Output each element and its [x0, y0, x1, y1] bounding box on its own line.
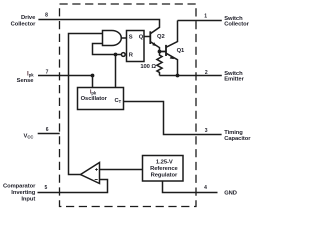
wire oscillator output up to R junction — [115, 55, 117, 88]
svg-text:Inverting: Inverting — [11, 190, 36, 196]
wire AND lower input wrap-around to R input — [93, 44, 122, 55]
svg-text:Collector: Collector — [11, 21, 36, 27]
wire latch Q output to Q2 base — [144, 36, 150, 38]
pin 4 wire (GND from reference regulator) — [163, 181, 218, 193]
comparator + symbol — [95, 168, 98, 171]
node Q2 emitter / Q1 base junction — [158, 50, 162, 54]
transistor Q2 — [149, 31, 151, 44]
svg-text:Input: Input — [21, 196, 35, 202]
svg-text:7: 7 — [46, 70, 49, 76]
pin 2 wire (Switch Emitter rail) — [160, 75, 222, 77]
svg-text:Comparator: Comparator — [3, 183, 36, 189]
svg-text:Q: Q — [139, 34, 144, 40]
node Q1 emitter on switch emitter rail — [176, 74, 180, 78]
comparator — [81, 163, 100, 184]
svg-text:Emitter: Emitter — [224, 77, 244, 83]
inverter bubble on R input — [121, 53, 125, 57]
svg-text:GND: GND — [224, 191, 237, 197]
svg-text:Capacitor: Capacitor — [224, 136, 251, 142]
svg-text:Ipk: Ipk — [90, 90, 97, 96]
pin 1 wire (Switch Collector from Q1) — [178, 20, 222, 22]
pin 7 junction dot — [91, 74, 95, 78]
svg-text:1.25-V: 1.25-V — [156, 160, 173, 166]
svg-text:Q2: Q2 — [157, 34, 165, 40]
SR latch — [127, 31, 145, 62]
svg-text:5: 5 — [45, 185, 48, 191]
pin 3 wire (Timing Capacitor from CT) — [124, 102, 222, 135]
IC package dashed boundary — [60, 4, 197, 207]
svg-text:VCC: VCC — [24, 134, 34, 140]
svg-text:S: S — [129, 34, 133, 40]
Q2 emitter arrowhead — [152, 42, 156, 46]
resistor 100 ohm — [157, 52, 162, 76]
svg-text:Ipk: Ipk — [27, 70, 34, 77]
svg-text:4: 4 — [204, 185, 207, 191]
svg-text:Regulator: Regulator — [151, 172, 178, 178]
svg-text:Oscillator: Oscillator — [81, 96, 108, 102]
AND gate — [103, 31, 122, 46]
svg-text:Q1: Q1 — [177, 48, 185, 54]
svg-text:Reference: Reference — [150, 166, 178, 172]
comparator - symbol — [95, 179, 98, 181]
pin 5 wire (Comparator Inverting Input) — [38, 180, 108, 193]
svg-text:Collector: Collector — [224, 22, 249, 28]
junction dot at R input — [114, 53, 118, 57]
Q1 emitter arrowhead — [170, 56, 175, 60]
svg-text:Sense: Sense — [17, 78, 35, 84]
pin 6 wire (VCC stub) — [38, 133, 60, 135]
pin 8 wire (Drive Collector rail to Q2 collector) — [38, 20, 159, 34]
wire comparator output to AND gate input (vertical rail) — [69, 34, 103, 175]
wire AND output to S input — [121, 37, 126, 39]
svg-text:6: 6 — [46, 127, 49, 133]
svg-text:1: 1 — [204, 14, 207, 20]
pin 7 wire (Ipk Sense into oscillator) — [38, 76, 93, 88]
svg-text:2: 2 — [205, 70, 208, 76]
svg-text:3: 3 — [205, 128, 208, 134]
wire reference output to comparator + input — [100, 169, 143, 171]
transistor Q1 — [160, 45, 167, 56]
svg-text:CT: CT — [115, 98, 122, 104]
svg-text:Drive: Drive — [21, 15, 36, 21]
svg-text:8: 8 — [45, 13, 48, 19]
oscillator box — [78, 88, 124, 110]
1.25-V reference regulator box — [143, 156, 184, 182]
svg-text:100 Ω: 100 Ω — [140, 64, 156, 70]
